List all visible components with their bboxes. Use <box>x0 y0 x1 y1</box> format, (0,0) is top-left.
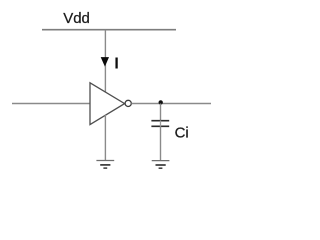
output wire <box>131 103 211 105</box>
current arrow I <box>101 57 109 67</box>
svg-text:I: I <box>114 55 118 72</box>
capacitor Ci bottom plate <box>151 125 169 127</box>
ground (inverter) <box>96 161 114 169</box>
capacitor inter-plate wire <box>160 120 162 126</box>
junction node <box>159 100 163 104</box>
wire inverter bottom to ground <box>104 115 106 160</box>
capacitor Ci top plate <box>151 120 169 122</box>
op-amp style inverter U1 triangle <box>90 83 125 125</box>
wire Vdd rail to inverter <box>104 30 106 93</box>
wire capacitor to ground <box>160 126 162 160</box>
Vdd rail wire <box>42 29 176 31</box>
input wire <box>12 103 90 105</box>
svg-text:Ci: Ci <box>175 125 189 142</box>
ground (capacitor) <box>152 161 170 169</box>
svg-text:Vdd: Vdd <box>63 10 90 27</box>
wire junction to capacitor <box>160 104 162 121</box>
inverter bubble <box>125 100 131 106</box>
